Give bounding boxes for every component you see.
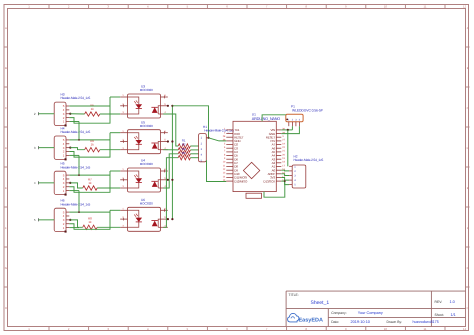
wire bbox=[110, 170, 120, 172]
svg-text:1k: 1k bbox=[91, 143, 95, 147]
wire bbox=[69, 139, 110, 141]
junction bbox=[167, 105, 169, 107]
svg-text:R4: R4 bbox=[182, 151, 186, 155]
junction bbox=[69, 147, 71, 149]
wire bbox=[97, 187, 120, 189]
svg-text:Sheet:: Sheet: bbox=[435, 313, 445, 317]
wire bbox=[70, 148, 84, 150]
wire bbox=[78, 122, 80, 140]
net port 4 bbox=[34, 181, 39, 185]
wire bbox=[70, 113, 84, 115]
svg-text:B: B bbox=[467, 66, 469, 70]
svg-text:MOC3020: MOC3020 bbox=[140, 162, 153, 166]
svg-text:10: 10 bbox=[384, 5, 388, 9]
resistor network labels bbox=[182, 139, 186, 155]
wire bbox=[70, 183, 82, 188]
svg-text:1.0: 1.0 bbox=[450, 300, 455, 304]
connector header H5 bbox=[54, 162, 90, 196]
wire bbox=[190, 153, 198, 155]
wire bbox=[281, 129, 292, 131]
wire bbox=[110, 209, 120, 211]
svg-text:MOC3020: MOC3020 bbox=[140, 201, 153, 205]
wire bbox=[163, 114, 178, 146]
net port 2 bbox=[34, 112, 39, 116]
junction bbox=[69, 219, 71, 221]
wire bbox=[163, 158, 178, 228]
connector P1 WLEDDGVC 0.56-5P bbox=[286, 105, 324, 127]
wire bbox=[69, 133, 110, 157]
svg-text:H: H bbox=[5, 306, 7, 310]
junction bbox=[171, 105, 173, 107]
svg-text:Date:: Date: bbox=[331, 320, 339, 324]
svg-text:B: B bbox=[5, 66, 7, 70]
svg-text:D: D bbox=[467, 146, 469, 150]
wire bus bbox=[171, 106, 173, 219]
resistor R1 bbox=[178, 144, 190, 148]
svg-text:Header-Male-2.54_1x5: Header-Male-2.54_1x5 bbox=[61, 96, 91, 100]
wire bbox=[281, 169, 289, 172]
svg-text:Sheet_1: Sheet_1 bbox=[311, 300, 330, 306]
wire bbox=[190, 145, 198, 147]
wire bbox=[172, 106, 208, 138]
svg-text:2019-10-10: 2019-10-10 bbox=[351, 320, 370, 324]
svg-text:F: F bbox=[467, 226, 469, 230]
junction bbox=[69, 182, 71, 184]
junction bbox=[171, 218, 173, 220]
svg-text:H: H bbox=[467, 306, 469, 310]
junction bbox=[287, 129, 289, 131]
svg-text:Header-Male-2.54_1x5: Header-Male-2.54_1x5 bbox=[61, 202, 91, 206]
wire bbox=[264, 181, 285, 197]
svg-text:MOC3020: MOC3020 bbox=[140, 124, 153, 128]
junction bbox=[167, 179, 169, 181]
wire bbox=[281, 178, 289, 181]
resistor R6 1k bbox=[85, 139, 100, 152]
svg-text:E: E bbox=[467, 186, 469, 190]
wire bbox=[163, 149, 178, 151]
junction bbox=[69, 113, 71, 115]
wire bbox=[69, 210, 110, 229]
junction bbox=[78, 139, 80, 141]
wire bbox=[39, 113, 55, 115]
svg-text:A: A bbox=[5, 26, 7, 30]
junction bbox=[284, 180, 286, 182]
resistor R3 bbox=[178, 152, 190, 156]
svg-text:F: F bbox=[5, 226, 7, 230]
connector header H1 bbox=[199, 125, 235, 162]
resistor R2 bbox=[178, 148, 190, 152]
svg-text:1k: 1k bbox=[91, 107, 95, 111]
wire bbox=[39, 219, 55, 221]
wire bbox=[78, 155, 80, 175]
resistor R7 1k bbox=[83, 177, 98, 190]
EasyEDA logo bbox=[288, 313, 323, 323]
svg-text:A: A bbox=[467, 26, 469, 30]
wire bbox=[110, 96, 120, 98]
svg-text:D12/MISO: D12/MISO bbox=[234, 179, 248, 183]
connector header H2 bbox=[289, 154, 323, 188]
wire bbox=[281, 126, 299, 133]
junction bbox=[171, 140, 173, 142]
wire bbox=[100, 149, 120, 151]
wire bbox=[39, 147, 55, 149]
svg-text:REV:: REV: bbox=[435, 300, 443, 304]
svg-text:Header-Male-2.54_1x5: Header-Male-2.54_1x5 bbox=[61, 130, 91, 134]
optocoupler U3 MOC3020 bbox=[120, 85, 168, 118]
junction bbox=[78, 174, 80, 176]
wire bbox=[69, 105, 110, 107]
wire bbox=[281, 181, 289, 185]
wire bbox=[100, 113, 120, 115]
svg-text:Your Company: Your Company bbox=[358, 311, 383, 315]
wire bbox=[69, 227, 79, 229]
wire bbox=[190, 149, 198, 151]
title block bbox=[286, 291, 465, 326]
svg-text:D: D bbox=[5, 146, 7, 150]
svg-text:TITLE:: TITLE: bbox=[289, 293, 299, 297]
resistor R5 1k bbox=[85, 103, 100, 116]
svg-text:D13/SCK: D13/SCK bbox=[263, 179, 275, 183]
wire bbox=[69, 171, 110, 192]
svg-text:G: G bbox=[467, 266, 469, 270]
wire bbox=[70, 220, 82, 227]
wire bbox=[69, 121, 79, 123]
wire bbox=[163, 154, 178, 188]
junction bbox=[207, 137, 209, 139]
resistor R4 bbox=[178, 156, 190, 160]
wire bbox=[69, 211, 110, 213]
resistor R8 1k bbox=[83, 217, 98, 230]
svg-text:G: G bbox=[5, 266, 7, 270]
optocoupler U5 MOC3020 bbox=[120, 120, 168, 153]
connector header H6 bbox=[54, 199, 90, 233]
svg-text:huevoduro8175: huevoduro8175 bbox=[413, 320, 439, 324]
connector header H4 bbox=[54, 127, 90, 161]
svg-text:C: C bbox=[5, 106, 7, 110]
wire bbox=[209, 138, 227, 141]
svg-text:1/1: 1/1 bbox=[451, 313, 456, 317]
wire bbox=[78, 191, 80, 213]
wire bbox=[69, 154, 79, 156]
svg-text:MOC3020: MOC3020 bbox=[140, 88, 153, 92]
junction bbox=[167, 140, 169, 142]
svg-text:10: 10 bbox=[384, 327, 388, 331]
svg-text:11: 11 bbox=[424, 327, 427, 331]
optocoupler U6 MOC3020 bbox=[120, 198, 168, 231]
wire bbox=[190, 157, 198, 159]
mcu U1 ARDUINO_NANO bbox=[223, 113, 286, 199]
svg-text:Drawn By:: Drawn By: bbox=[387, 320, 403, 324]
wire bbox=[287, 130, 289, 166]
svg-text:12: 12 bbox=[463, 5, 467, 9]
net port 5 bbox=[34, 218, 39, 222]
connector header H3 bbox=[54, 93, 90, 127]
optocoupler U4 MOC3020 bbox=[120, 159, 168, 192]
wire bbox=[262, 115, 286, 122]
wire bbox=[69, 174, 110, 176]
junction bbox=[167, 218, 169, 220]
svg-text:WLEDDGVC 0.56-5P: WLEDDGVC 0.56-5P bbox=[292, 108, 324, 112]
wire bbox=[281, 174, 289, 176]
svg-text:Company:: Company: bbox=[331, 311, 347, 315]
wire bbox=[69, 97, 110, 123]
svg-text:Header-Male-2.54_1x5: Header-Male-2.54_1x5 bbox=[204, 129, 234, 133]
wire bbox=[69, 190, 79, 192]
svg-text:1k: 1k bbox=[88, 220, 92, 224]
wire bbox=[39, 182, 55, 184]
junction bbox=[78, 211, 80, 213]
junction bbox=[171, 179, 173, 181]
svg-text:C: C bbox=[467, 106, 469, 110]
net port 3 bbox=[34, 146, 39, 150]
wire bbox=[110, 132, 120, 134]
svg-text:EasyEDA: EasyEDA bbox=[299, 318, 323, 324]
svg-text:ARDUINO_NANO: ARDUINO_NANO bbox=[252, 117, 280, 121]
svg-text:11: 11 bbox=[424, 5, 427, 9]
wire bbox=[291, 126, 293, 130]
svg-text:Header-Male-2.54_1x5: Header-Male-2.54_1x5 bbox=[61, 165, 91, 169]
svg-text:12: 12 bbox=[463, 327, 467, 331]
wire bbox=[97, 226, 120, 228]
svg-text:1k: 1k bbox=[88, 181, 92, 185]
wire bbox=[207, 160, 227, 181]
svg-text:E: E bbox=[5, 186, 7, 190]
svg-text:Header-Male-2.54_1x5: Header-Male-2.54_1x5 bbox=[294, 158, 324, 162]
